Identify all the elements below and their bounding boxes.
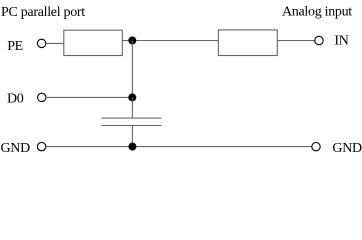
svg-text:PC parallel port: PC parallel port [1,5,85,20]
wire node A to R2 [132,40,218,42]
wire R2 to IN [277,40,315,42]
wire D0 to node B [46,96,132,98]
terminal GND right [312,143,320,151]
svg-text:IN: IN [334,34,348,49]
terminal D0 [38,93,46,101]
svg-text:Analog input: Analog input [282,4,352,19]
node A junction dot [128,37,136,45]
svg-text:PE: PE [7,39,23,54]
svg-text:GND: GND [332,141,362,155]
wire R1 to node A [122,40,132,42]
terminal PE [37,39,45,47]
terminal IN [315,36,323,44]
wire capacitor C1 bottom plate to node C [131,126,133,147]
wire node C to GND right [132,146,311,148]
node B junction dot [128,93,136,101]
wire GND left to node C [46,146,133,148]
svg-text:D0: D0 [7,92,24,107]
capacitor C1 top plate [102,117,162,119]
wire node B to capacitor C1 top plate [131,97,133,118]
wire PE to R1 [46,42,64,44]
node C junction dot [128,143,136,151]
svg-text:GND: GND [1,141,31,155]
resistor R1 [64,30,123,55]
resistor R2 [218,30,277,56]
terminal GND left [37,142,45,150]
wire node A to node B (vertical) [131,41,133,98]
capacitor C1 bottom plate [102,125,162,127]
